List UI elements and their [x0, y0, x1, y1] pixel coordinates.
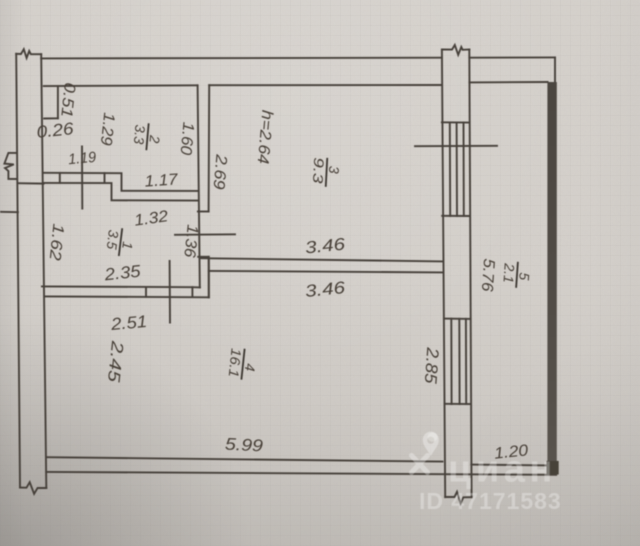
- door D1 jamb lower: [198, 256, 209, 258]
- wall balcony bottom top-line: [471, 464, 549, 467]
- wall room3-room4 bottom-line: [209, 271, 442, 273]
- wall divider room2-room3 left-line: [198, 85, 200, 287]
- wall left-top-cap with break: [16, 49, 41, 58]
- room label 5/2.1: [500, 261, 533, 289]
- wall left-bottom-cap with break: [20, 482, 46, 494]
- door D1 axis line: [175, 233, 235, 236]
- svg-text:2.35: 2.35: [103, 262, 142, 285]
- wall stub left with break: [4, 153, 17, 179]
- wall balcony top-line: [469, 81, 547, 83]
- scan artifact white dot: [428, 432, 438, 441]
- wall left-inner-line: [41, 54, 46, 488]
- wall top-right corner vertical: [554, 57, 556, 82]
- room label 4/16.1: [225, 347, 260, 381]
- window W2 pane line b: [458, 319, 460, 404]
- svg-text:1.36: 1.36: [180, 224, 200, 259]
- svg-text:циан: циан: [448, 449, 557, 491]
- window W1 pane line a: [449, 122, 451, 215]
- svg-text:2: 2: [146, 134, 163, 144]
- svg-text:3.3: 3.3: [131, 124, 149, 145]
- room label 3/9.3: [310, 157, 343, 188]
- room label 1/3.5: [103, 226, 138, 258]
- window W2 pane line c: [465, 319, 467, 404]
- wall room1 bottom step: [191, 287, 193, 297]
- watermark X mark: [412, 456, 428, 473]
- wall room4 bottom top-line: [46, 457, 442, 461]
- svg-text:ID 47171583: ID 47171583: [419, 488, 562, 514]
- balcony corner block: [547, 461, 559, 475]
- door D2 axis line: [81, 147, 83, 209]
- shaft bottom-cap with break: [445, 492, 471, 504]
- svg-text:1.29: 1.29: [97, 112, 117, 147]
- shaft right-line: [469, 49, 471, 497]
- watermark pin icon: [423, 432, 439, 456]
- svg-text:1.19: 1.19: [67, 149, 97, 168]
- window W1 pane line c: [463, 123, 465, 216]
- window W2 pane line a: [450, 319, 452, 404]
- door D1 jamb upper: [198, 211, 209, 213]
- wall top-outer-line right of shaft: [469, 56, 555, 58]
- svg-text:5.76: 5.76: [478, 258, 497, 292]
- wall room2 top-inner-line: [44, 84, 198, 87]
- window W2 top rung: [444, 318, 471, 320]
- svg-text:0.51: 0.51: [57, 82, 78, 119]
- wall left-outer-line: [16, 54, 20, 488]
- wall room3 top-inner-line: [209, 84, 442, 86]
- window W1 pane line b: [456, 122, 458, 215]
- wall room4-balcony bottom bottom-line: [46, 472, 556, 475]
- window W1 top rung: [442, 121, 470, 123]
- shaft left-line: [442, 49, 445, 497]
- wire section-line to left edge: [0, 211, 18, 213]
- svg-text:5: 5: [516, 272, 533, 281]
- wall divider V2: [208, 258, 210, 297]
- svg-text:1.60: 1.60: [177, 121, 197, 155]
- svg-text:16.1: 16.1: [226, 348, 245, 379]
- wall room1 bottom bottom-line: [45, 295, 209, 298]
- svg-text:2.85: 2.85: [421, 346, 443, 385]
- column niche right edge: [57, 86, 59, 118]
- door D2 jamb left: [59, 173, 61, 183]
- shaft top-cap with break: [442, 45, 469, 55]
- svg-text:5.99: 5.99: [225, 435, 265, 456]
- svg-text:3.5: 3.5: [104, 229, 122, 250]
- balcony glazing dark band: [547, 82, 556, 475]
- svg-text:1.17: 1.17: [144, 171, 179, 190]
- door D3 jamb: [145, 287, 147, 297]
- wall divider right-line lower: [208, 257, 210, 298]
- svg-text:2.1: 2.1: [500, 262, 517, 284]
- wall rung y183: [18, 182, 44, 184]
- wall room1 bottom top-line: [42, 286, 200, 287]
- window W1 dimension line: [415, 145, 497, 147]
- wall room3-room4 top-line: [200, 258, 442, 261]
- room label 2/3.3: [130, 122, 164, 152]
- wall room2 bottom line lower: [44, 183, 198, 201]
- window W1 bottom rung: [442, 215, 469, 217]
- svg-text:0.26: 0.26: [36, 119, 75, 142]
- svg-text:2.51: 2.51: [109, 312, 148, 334]
- door D2 jamb right: [104, 173, 106, 183]
- column niche bottom edge: [44, 117, 58, 119]
- svg-text:9.3: 9.3: [310, 157, 327, 184]
- window W2 bottom rung: [445, 403, 471, 405]
- wall room2 bottom line upper: [44, 173, 198, 191]
- svg-text:2.69: 2.69: [209, 153, 229, 191]
- wall divider right-line upper: [208, 85, 211, 211]
- wall top-outer-line: [41, 57, 442, 60]
- svg-text:3: 3: [326, 165, 342, 174]
- dimension 2.51 extension line: [169, 261, 171, 323]
